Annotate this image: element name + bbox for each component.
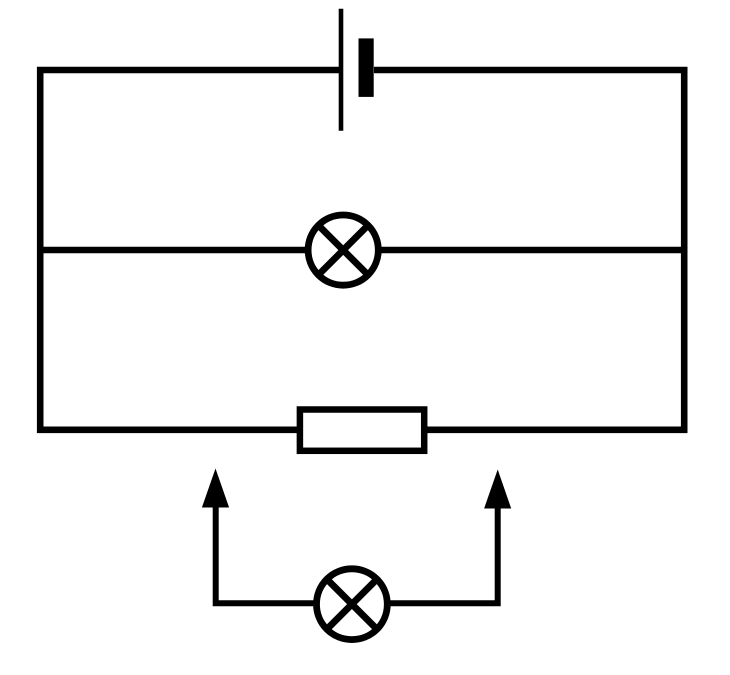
resistor R1 (on bottom wire) <box>300 410 424 451</box>
lamp L2 cross stroke 2 <box>327 579 377 629</box>
wire: middle branch wire <box>40 247 684 254</box>
wire: main outer loop (top wire with battery gap, left, bottom, right sides) <box>40 70 684 430</box>
lamp L1 cross stroke 1 <box>318 225 368 275</box>
arrow probe right (points up at bottom wire) <box>484 470 511 509</box>
battery B1 negative plate (short thick) <box>359 38 374 97</box>
lamp L2 (lower loop) circle <box>317 569 388 640</box>
lamp L1 cross stroke 2 <box>318 225 368 275</box>
arrow probe left (points up at bottom wire) <box>202 469 229 508</box>
wire: lower measuring loop (left lead, bottom run, right lead) <box>216 505 498 603</box>
lamp L1 (middle branch) circle <box>308 215 378 285</box>
battery B1 positive plate (long thin) <box>339 9 344 131</box>
lamp L2 cross stroke 1 <box>327 579 377 629</box>
